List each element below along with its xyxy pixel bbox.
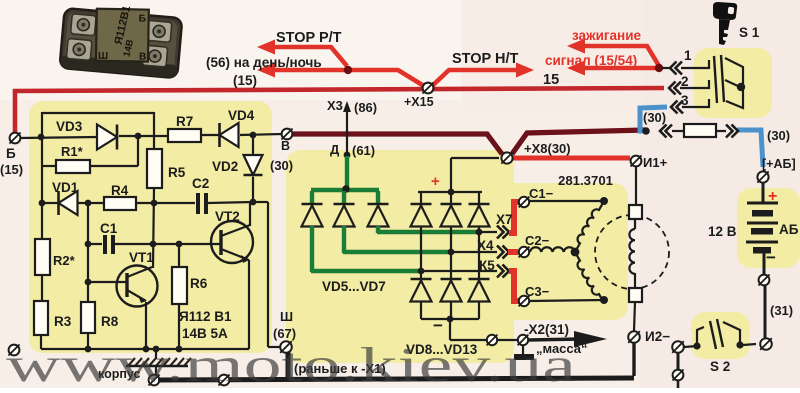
svg-text:VD3: VD3 bbox=[56, 119, 83, 134]
svg-text:+: + bbox=[768, 188, 777, 205]
svg-text:+Х8(30): +Х8(30) bbox=[524, 141, 571, 156]
svg-text:VT1: VT1 bbox=[129, 250, 154, 265]
svg-text:Б: Б bbox=[6, 146, 16, 161]
svg-text:Ш: Ш bbox=[280, 309, 293, 324]
svg-text:(30): (30) bbox=[643, 110, 666, 125]
svg-text:VD5...VD7: VD5...VD7 bbox=[322, 279, 386, 294]
svg-text:(56) на день/ночь: (56) на день/ночь bbox=[206, 55, 322, 70]
svg-text:S 2: S 2 bbox=[710, 359, 730, 374]
svg-text:К5: К5 bbox=[479, 258, 495, 273]
svg-text:R1*: R1* bbox=[61, 144, 84, 159]
svg-text:сигнал (15/54): сигнал (15/54) bbox=[545, 53, 637, 68]
svg-text:1: 1 bbox=[684, 48, 692, 63]
svg-text:X7: X7 bbox=[496, 212, 513, 227]
svg-text:−: − bbox=[433, 316, 443, 335]
svg-text:Д: Д bbox=[330, 142, 340, 157]
svg-text:STOP H/T: STOP H/T bbox=[452, 51, 518, 67]
svg-text:www.moto.kiev.ua: www.moto.kiev.ua bbox=[6, 337, 576, 388]
svg-text:И1+: И1+ bbox=[643, 155, 668, 170]
svg-text:[+АБ]: [+АБ] bbox=[762, 157, 796, 171]
svg-text:И2−: И2− bbox=[645, 329, 670, 344]
svg-text:R2*: R2* bbox=[53, 253, 76, 268]
svg-text:С3−: С3− bbox=[525, 284, 550, 299]
svg-text:зажигание: зажигание bbox=[572, 28, 641, 43]
svg-text:Б: Б bbox=[139, 13, 146, 24]
svg-text:VD4: VD4 bbox=[228, 108, 255, 123]
svg-text:+Х15: +Х15 bbox=[404, 95, 434, 109]
svg-text:3: 3 bbox=[681, 93, 689, 108]
svg-text:R3: R3 bbox=[54, 314, 72, 329]
svg-text:STOP P/T: STOP P/T bbox=[276, 30, 342, 46]
svg-text:(30): (30) bbox=[767, 128, 790, 143]
svg-text:VT2: VT2 bbox=[215, 209, 240, 224]
svg-text:−: − bbox=[766, 248, 776, 267]
svg-text:В: В bbox=[281, 139, 290, 153]
svg-text:R8: R8 bbox=[101, 314, 119, 329]
svg-text:(30): (30) bbox=[270, 158, 293, 173]
svg-text:АБ: АБ bbox=[779, 222, 799, 237]
svg-text:R7: R7 bbox=[176, 114, 193, 129]
svg-text:С2−: С2− bbox=[525, 233, 550, 248]
svg-text:В: В bbox=[139, 51, 146, 62]
svg-text:2: 2 bbox=[681, 74, 689, 89]
svg-text:15: 15 bbox=[543, 72, 559, 88]
svg-text:Х4: Х4 bbox=[477, 238, 494, 253]
svg-text:R6: R6 bbox=[190, 276, 208, 291]
svg-text:(86): (86) bbox=[354, 100, 377, 115]
svg-text:12 В: 12 В bbox=[708, 224, 737, 239]
svg-text:(15): (15) bbox=[0, 162, 23, 177]
svg-text:VD1: VD1 bbox=[52, 180, 79, 195]
svg-text:Х3: Х3 bbox=[327, 98, 343, 113]
svg-text:R5: R5 bbox=[168, 165, 186, 180]
svg-text:C1: C1 bbox=[100, 221, 118, 236]
svg-text:281.3701: 281.3701 bbox=[558, 173, 613, 188]
svg-text:-Х2(31): -Х2(31) bbox=[524, 322, 569, 337]
svg-text:(31): (31) bbox=[770, 303, 793, 318]
svg-text:(61): (61) bbox=[352, 143, 375, 158]
svg-text:VD2: VD2 bbox=[212, 159, 238, 174]
svg-text:(15): (15) bbox=[233, 73, 257, 88]
svg-text:R4: R4 bbox=[111, 183, 129, 198]
svg-text:Ш: Ш bbox=[98, 51, 108, 62]
svg-text:S 1: S 1 bbox=[739, 25, 760, 40]
svg-text:+: + bbox=[431, 173, 440, 190]
svg-text:Я112 В1: Я112 В1 bbox=[179, 309, 232, 324]
svg-text:C2: C2 bbox=[192, 176, 209, 191]
svg-text:С1−: С1− bbox=[529, 186, 554, 201]
